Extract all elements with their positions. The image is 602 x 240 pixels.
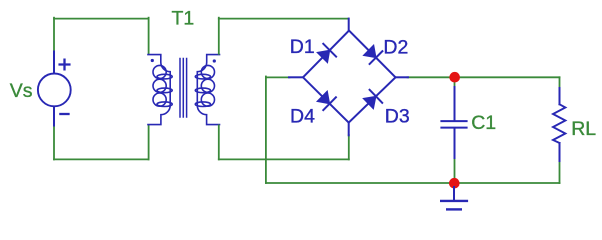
wire mid rail right bbox=[408, 76, 560, 78]
wire cap bottom green bbox=[454, 158, 456, 184]
voltage source Vs circle bbox=[38, 74, 71, 107]
transformer T1 primary winding bbox=[148, 55, 172, 125]
capacitor C1 bottom plate bbox=[441, 127, 466, 129]
wire secondary top rail bbox=[219, 18, 349, 20]
diode D4 bar bbox=[323, 97, 336, 110]
diode D1 bar bbox=[323, 44, 336, 57]
diode D3 bar bbox=[370, 90, 383, 103]
ground bar 2 bbox=[447, 208, 461, 210]
svg-text:Vs: Vs bbox=[10, 80, 33, 102]
svg-text:T1: T1 bbox=[172, 8, 195, 30]
diode D1 triangle bbox=[317, 50, 330, 63]
wire secondary bottom vertical bbox=[218, 125, 220, 159]
transformer secondary phase dot bbox=[213, 59, 216, 62]
wire primary top bbox=[54, 18, 149, 20]
bridge right stub blue bbox=[396, 76, 409, 78]
transformer primary phase dot bbox=[151, 59, 154, 62]
wire left vertex horizontal bbox=[266, 76, 290, 78]
bridge bottom stub blue bbox=[348, 123, 350, 136]
voltage source plus sign bbox=[60, 60, 70, 70]
resistor RL zigzag bbox=[553, 104, 565, 143]
wire primary left lower bbox=[53, 125, 55, 159]
svg-text:C1: C1 bbox=[471, 112, 496, 134]
wire cap top green sliver bbox=[454, 77, 456, 88]
voltage source Vs stub top bbox=[53, 52, 55, 74]
bridge diamond outline bbox=[303, 31, 396, 123]
wire primary right lower bbox=[148, 125, 150, 159]
capacitor C1 top plate bbox=[441, 120, 466, 122]
junction dot top (C1 / output node) bbox=[449, 72, 460, 83]
wire RL bottom bbox=[559, 161, 561, 184]
bridge left stub blue bbox=[289, 76, 303, 78]
wire primary left upper bbox=[53, 18, 55, 52]
capacitor C1 top stub blue bbox=[454, 87, 456, 120]
svg-text:D4: D4 bbox=[290, 106, 315, 128]
svg-text:D2: D2 bbox=[383, 36, 408, 58]
wire primary right upper bbox=[148, 18, 150, 54]
diode D2 triangle bbox=[363, 45, 376, 58]
resistor RL stub top blue bbox=[559, 88, 561, 104]
bridge top stub blue bbox=[348, 19, 350, 31]
junction dot bottom (ground node) bbox=[449, 178, 460, 189]
wire left vertex feeder vertical bbox=[265, 77, 267, 184]
diode D4 triangle bbox=[317, 91, 330, 104]
wire secondary to bridge bottom bbox=[219, 158, 349, 160]
wire bridge bottom stub green bbox=[348, 135, 350, 159]
capacitor C1 bottom stub blue bbox=[454, 129, 456, 159]
diode D2 bar bbox=[370, 51, 383, 64]
diode D3 triangle bbox=[363, 96, 376, 109]
resistor RL stub bottom blue bbox=[559, 143, 561, 161]
wire primary bottom bbox=[54, 158, 149, 160]
transformer T1 core bbox=[180, 59, 187, 118]
transformer T1 secondary winding bbox=[195, 55, 219, 125]
wire bottom rail bbox=[266, 182, 560, 184]
voltage source Vs stub bottom bbox=[53, 108, 55, 126]
wire secondary top vertical bbox=[218, 18, 220, 54]
voltage source minus sign bbox=[60, 113, 68, 115]
ground stub bbox=[453, 187, 455, 200]
svg-text:RL: RL bbox=[571, 118, 596, 140]
svg-text:D1: D1 bbox=[290, 36, 315, 58]
wire RL top corner bbox=[559, 77, 561, 89]
ground bar 1 bbox=[441, 200, 467, 202]
svg-text:D3: D3 bbox=[385, 106, 410, 128]
